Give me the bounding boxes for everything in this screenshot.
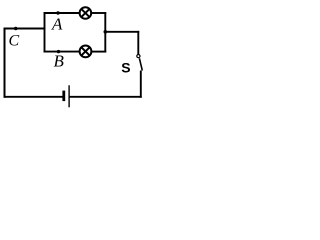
wire: right upper vertical down to switch <box>137 31 139 54</box>
battery: long thin positive plate <box>68 85 69 107</box>
wire: right parallel junction bar <box>104 12 106 52</box>
wire: branch A left segment <box>44 12 81 14</box>
wire: branch A right segment <box>91 12 106 14</box>
wire: branch B left segment <box>44 51 81 53</box>
wire: branch B right segment <box>91 51 106 53</box>
node C junction dot <box>14 27 18 31</box>
node B junction dot <box>57 50 60 53</box>
node A junction dot <box>56 11 59 14</box>
lamp L2 (branch B): circle with X <box>80 46 92 58</box>
junction dot at right bar middle <box>104 30 108 34</box>
battery: short thick negative plate <box>62 91 65 102</box>
wire: bottom left segment (to battery -) <box>4 96 63 98</box>
switch S: pivot circle <box>137 55 140 58</box>
wire: middle horizontal to switch branch <box>104 31 139 33</box>
lamp L1 (branch A): circle with X <box>80 7 92 19</box>
svg-text:S: S <box>121 60 130 76</box>
wire: left vertical (C branch down to bottom) <box>4 28 6 98</box>
svg-text:B: B <box>54 51 65 70</box>
wire: bottom right segment (battery + to switch) <box>69 96 141 98</box>
wire: right lower vertical (switch to bottom) <box>140 71 142 98</box>
wire: top-left horizontal from C to left junction bar <box>4 28 46 30</box>
switch S: lever blade <box>139 58 142 70</box>
svg-text:A: A <box>51 14 63 33</box>
svg-text:C: C <box>9 33 20 50</box>
wire: left parallel junction bar <box>44 12 46 52</box>
